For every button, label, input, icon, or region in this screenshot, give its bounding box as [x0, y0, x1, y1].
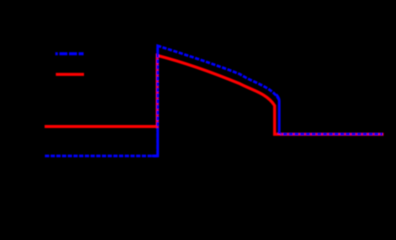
blue dashed curve (flat + jump + decay): [45, 46, 279, 156]
blue jump vertical solid cap: [156, 46, 159, 56]
legend sample line (blue dashed): [55, 52, 83, 55]
blue curve drop (solid-looking vertical): [276, 95, 279, 135]
legend sample line (red solid): [56, 73, 84, 76]
blue dashed tail: [281, 133, 383, 136]
blue jump vertical lower solid part: [152, 128, 158, 156]
red solid curve: [45, 55, 384, 134]
